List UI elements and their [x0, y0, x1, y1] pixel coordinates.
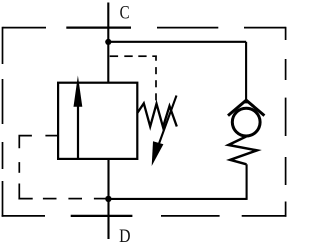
- check valve ball: [232, 108, 260, 136]
- pilot dashed line: top, from main line to spring: [110, 55, 157, 100]
- pilot dashed line: left, from envelope to bottom junction: [18, 135, 106, 200]
- node: top junction dot: [105, 39, 111, 45]
- check valve spring: [228, 137, 257, 165]
- wire: port C vertical line down to valve envelope: [107, 3, 109, 83]
- wire: top junction to right: [108, 41, 246, 43]
- flow path arrow inside envelope: [77, 104, 79, 159]
- node: bottom junction dot: [105, 196, 111, 202]
- wire: check valve to bottom line: [246, 164, 248, 200]
- valve envelope square: [58, 83, 137, 159]
- check valve seat: [228, 100, 264, 115]
- adjustment arrow through spring: [159, 96, 177, 146]
- svg-text:C: C: [120, 2, 130, 23]
- port D crossbar: [71, 215, 133, 217]
- enclosure dashed border: top side: [3, 27, 286, 29]
- wire: envelope bottom to bottom junction and port D: [107, 159, 109, 239]
- enclosure dashed border: bottom side: [2, 215, 287, 217]
- wire: down to check valve: [245, 42, 247, 101]
- enclosure dashed border: left side: [2, 27, 4, 217]
- svg-text:D: D: [119, 226, 130, 245]
- port C crossbar: [66, 27, 131, 29]
- wire: bottom junction to check valve: [108, 198, 246, 200]
- enclosure dashed border: right side: [285, 27, 287, 217]
- relief spring zigzag: [137, 103, 177, 127]
